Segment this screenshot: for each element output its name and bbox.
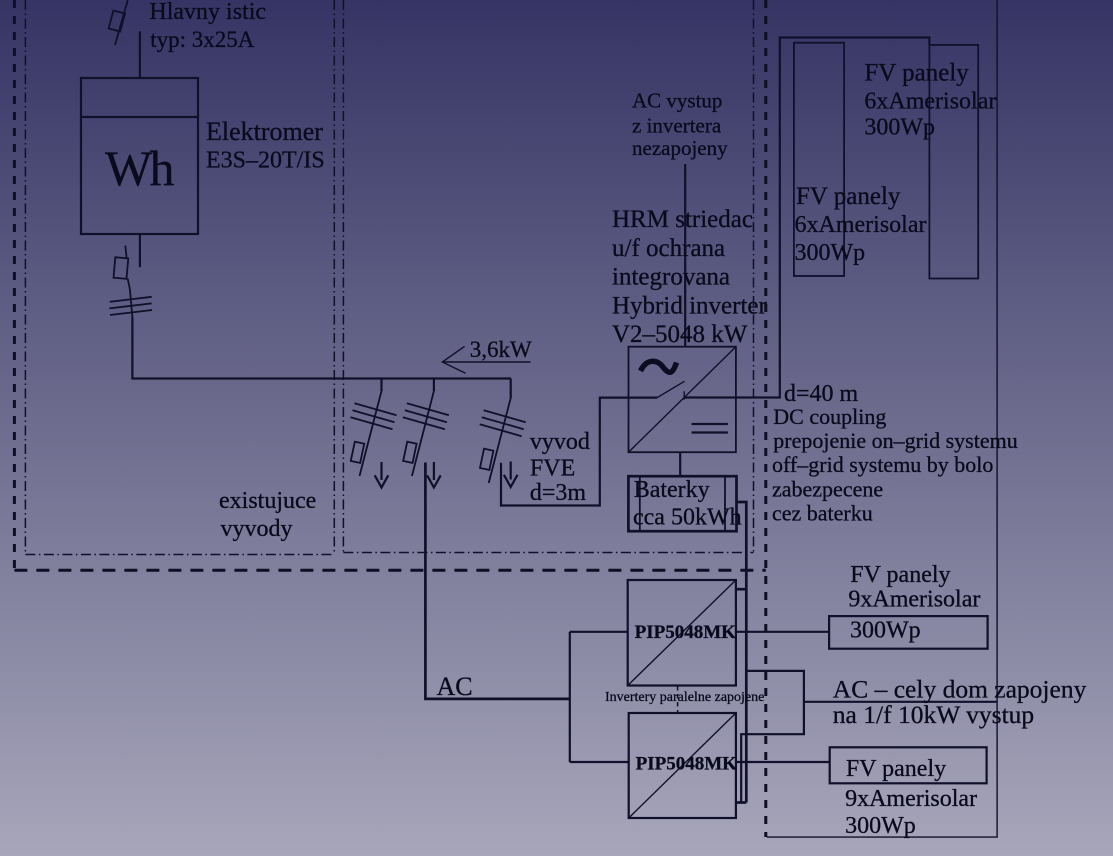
wire AC house output: [804, 701, 997, 703]
svg-text:FV panely: FV panely: [864, 60, 969, 87]
FV string panel 1 box: [794, 43, 844, 276]
battery inner plate right: [724, 476, 726, 531]
hybrid inverter switch blade: [657, 381, 684, 399]
svg-text:u/f ochrana: u/f ochrana: [612, 235, 725, 262]
battery box: [628, 476, 736, 531]
wire splitter vertical to PIP inputs: [569, 632, 571, 762]
wire inverter to battery: [679, 452, 681, 476]
svg-text:Hybrid inverter: Hybrid inverter: [612, 293, 767, 320]
wire branch B1 stub: [380, 379, 382, 392]
hybrid inverter AC tilde: [641, 361, 677, 372]
breaker 2 box: [114, 257, 129, 279]
wire main bus: [132, 317, 511, 379]
wire inverter AC output up (nezapojeny): [684, 164, 686, 347]
3-phase marks branch B3: [480, 410, 526, 436]
PIP5048MK inverter 1 box: [628, 580, 736, 686]
3-phase marks branch B1: [351, 403, 397, 429]
border outer dashed vertical left: [13, 0, 16, 570]
3-phase marks main feed: [109, 297, 152, 315]
border dash-dot box A bottom: [25, 554, 334, 556]
FV output box 1: [829, 616, 988, 649]
svg-text:nezapojeny: nezapojeny: [632, 136, 728, 160]
svg-text:cca 50kWh: cca 50kWh: [633, 505, 742, 531]
wire PIP2 bottom stub: [736, 801, 746, 804]
svg-text:cez baterku: cez baterku: [772, 501, 873, 526]
battery inner plate left: [639, 476, 641, 531]
svg-text:9xAmerisolar: 9xAmerisolar: [848, 587, 980, 613]
svg-text:d=3m: d=3m: [530, 480, 587, 506]
FV output box 2: [830, 747, 987, 783]
wire PIP1 output: [736, 631, 829, 633]
border dash-dot box A right: [333, 0, 335, 555]
svg-text:z invertera: z invertera: [632, 114, 722, 138]
FV string panel 2 box: [929, 45, 978, 279]
wire PIP1 top stub: [736, 588, 746, 591]
wire branch B3 stub: [510, 379, 512, 399]
svg-text:Wh: Wh: [105, 140, 175, 196]
border dash-dot box B bottom: [343, 552, 753, 554]
border dash-dot box B left: [342, 0, 344, 553]
svg-text:AC: AC: [437, 672, 473, 701]
wire breaker to meter: [139, 31, 141, 78]
svg-text:Elektromer: Elektromer: [206, 117, 323, 146]
svg-text:6xAmerisolar: 6xAmerisolar: [795, 212, 927, 238]
svg-text:typ: 3x25A: typ: 3x25A: [150, 27, 255, 52]
svg-text:AC vystup: AC vystup: [632, 89, 722, 113]
svg-text:FV panely: FV panely: [850, 562, 950, 588]
svg-text:Hlavny istic: Hlavny istic: [149, 0, 266, 25]
svg-text:na 1/f 10kW vystup: na 1/f 10kW vystup: [833, 700, 1034, 729]
hybrid inverter U1 box: [629, 347, 736, 453]
svg-text:3,6kW: 3,6kW: [470, 337, 532, 362]
border outer dashed horizontal bottom: [14, 569, 765, 572]
svg-text:integrovana: integrovana: [612, 264, 730, 291]
svg-text:300Wp: 300Wp: [864, 115, 935, 141]
label arrow 3,6kW: [442, 346, 530, 373]
svg-text:300Wp: 300Wp: [795, 240, 866, 266]
breaker (fuse box) branch B1: [351, 442, 364, 463]
svg-text:FV panely: FV panely: [796, 183, 901, 210]
svg-text:E3S–20T/IS: E3S–20T/IS: [206, 148, 325, 174]
meter Wh divider: [81, 116, 198, 118]
svg-text:PIP5048MK: PIP5048MK: [635, 622, 737, 643]
wire AC feed down from branch B2: [425, 463, 569, 699]
PIP5048MK inverter 2 box: [629, 713, 736, 818]
wire AC junction box: [741, 671, 804, 803]
border dash-dot box A left: [24, 0, 26, 555]
svg-text:300Wp: 300Wp: [845, 813, 916, 839]
breaker (fuse box) branch B2: [403, 442, 416, 463]
wire battery to DC bus: [737, 502, 747, 803]
svg-text:off–grid systemu by bolo: off–grid systemu by bolo: [772, 452, 993, 477]
svg-text:vyvod: vyvod: [530, 429, 590, 455]
svg-text:300Wp: 300Wp: [850, 618, 921, 644]
wire breaker 2 to bus: [128, 279, 133, 318]
wire branch B2 diagonal: [412, 391, 434, 476]
wire inverter DC to FV strings: [685, 38, 930, 398]
breaker (fuse box) branch B3: [480, 449, 493, 470]
PIP5048MK inverter 2 diagonal: [629, 713, 736, 818]
svg-text:9xAmerisolar: 9xAmerisolar: [845, 786, 977, 812]
wire PIP1 input: [570, 631, 628, 633]
breaker Hlavny istic box: [109, 10, 125, 31]
svg-text:DC coupling: DC coupling: [773, 404, 886, 429]
svg-text:zabezpecene: zabezpecene: [772, 477, 883, 502]
svg-text:Baterky: Baterky: [634, 477, 710, 503]
wire meter bottom: [139, 234, 141, 267]
svg-text:6xAmerisolar: 6xAmerisolar: [864, 89, 996, 115]
hybrid inverter DC equals: [692, 424, 728, 433]
border outer dashed vertical right: [764, 0, 767, 837]
breaker 2 tail: [125, 246, 126, 258]
svg-text:V2–5048 kW: V2–5048 kW: [612, 321, 748, 348]
wire branch B2 stub: [433, 379, 435, 392]
border dash-dot box B right: [753, 0, 755, 553]
svg-text:Invertery paralelne zapojene: Invertery paralelne zapojene: [605, 690, 764, 705]
svg-text:HRM striedac: HRM striedac: [612, 206, 753, 233]
svg-text:existujuce: existujuce: [219, 488, 316, 514]
wire long DC return right side: [767, 0, 997, 837]
3-phase marks branch B2: [403, 403, 449, 429]
wire PIP2 output: [736, 761, 830, 763]
svg-text:vyvody: vyvody: [221, 516, 293, 542]
wire branch B1 diagonal: [360, 391, 382, 476]
hybrid inverter diagonal: [629, 347, 736, 453]
svg-text:FV panely: FV panely: [846, 756, 946, 782]
arrow head down branch B2: [427, 462, 441, 488]
PIP5048MK inverter 1 diagonal: [628, 580, 736, 686]
svg-text:prepojenie on–grid systemu: prepojenie on–grid systemu: [773, 428, 1017, 453]
wire branch B3 diagonal: [489, 398, 511, 483]
arrow head down branch B1: [375, 462, 389, 488]
wire PIP2 input: [570, 761, 629, 763]
arrow head down branch B3: [504, 462, 518, 488]
breaker Hlavny istic diagonal: [115, 0, 128, 45]
meter Wh box: [81, 78, 198, 234]
svg-text:PIP5048MK: PIP5048MK: [636, 754, 738, 775]
wire dashed link PIP1 to PIP2: [677, 686, 679, 712]
svg-text:FVE: FVE: [530, 456, 575, 482]
wire vyvod FVE to hybrid inverter: [501, 398, 657, 506]
